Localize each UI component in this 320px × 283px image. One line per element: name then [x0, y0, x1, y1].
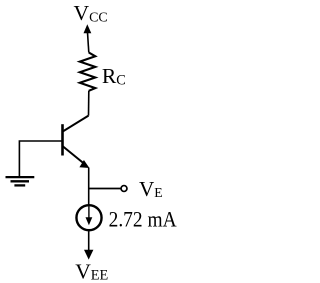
- wire VCC arrow to resistor: [87, 31, 88, 53]
- value label RC: [102, 64, 126, 88]
- wire emitter down to current source: [88, 168, 90, 205]
- terminal node VE: [121, 186, 127, 192]
- wire resistor to collector: [88, 91, 90, 116]
- value label 2.72 mA: [109, 206, 177, 232]
- power label VEE: [75, 259, 108, 283]
- svg-text:2.72 mA: 2.72 mA: [109, 206, 177, 232]
- ground: [6, 177, 35, 185]
- power arrow VEE: [84, 250, 93, 260]
- node label VE: [139, 177, 163, 201]
- power label VCC: [74, 1, 108, 25]
- resistor RC: [80, 53, 96, 91]
- wire emitter node to VE terminal: [89, 188, 121, 190]
- wire base to ground: [19, 141, 62, 176]
- wire current source to VEE: [88, 231, 90, 251]
- power arrow VCC: [84, 24, 92, 33]
- current source I1: [76, 205, 101, 230]
- transistor Q1 (NPN): [63, 116, 90, 168]
